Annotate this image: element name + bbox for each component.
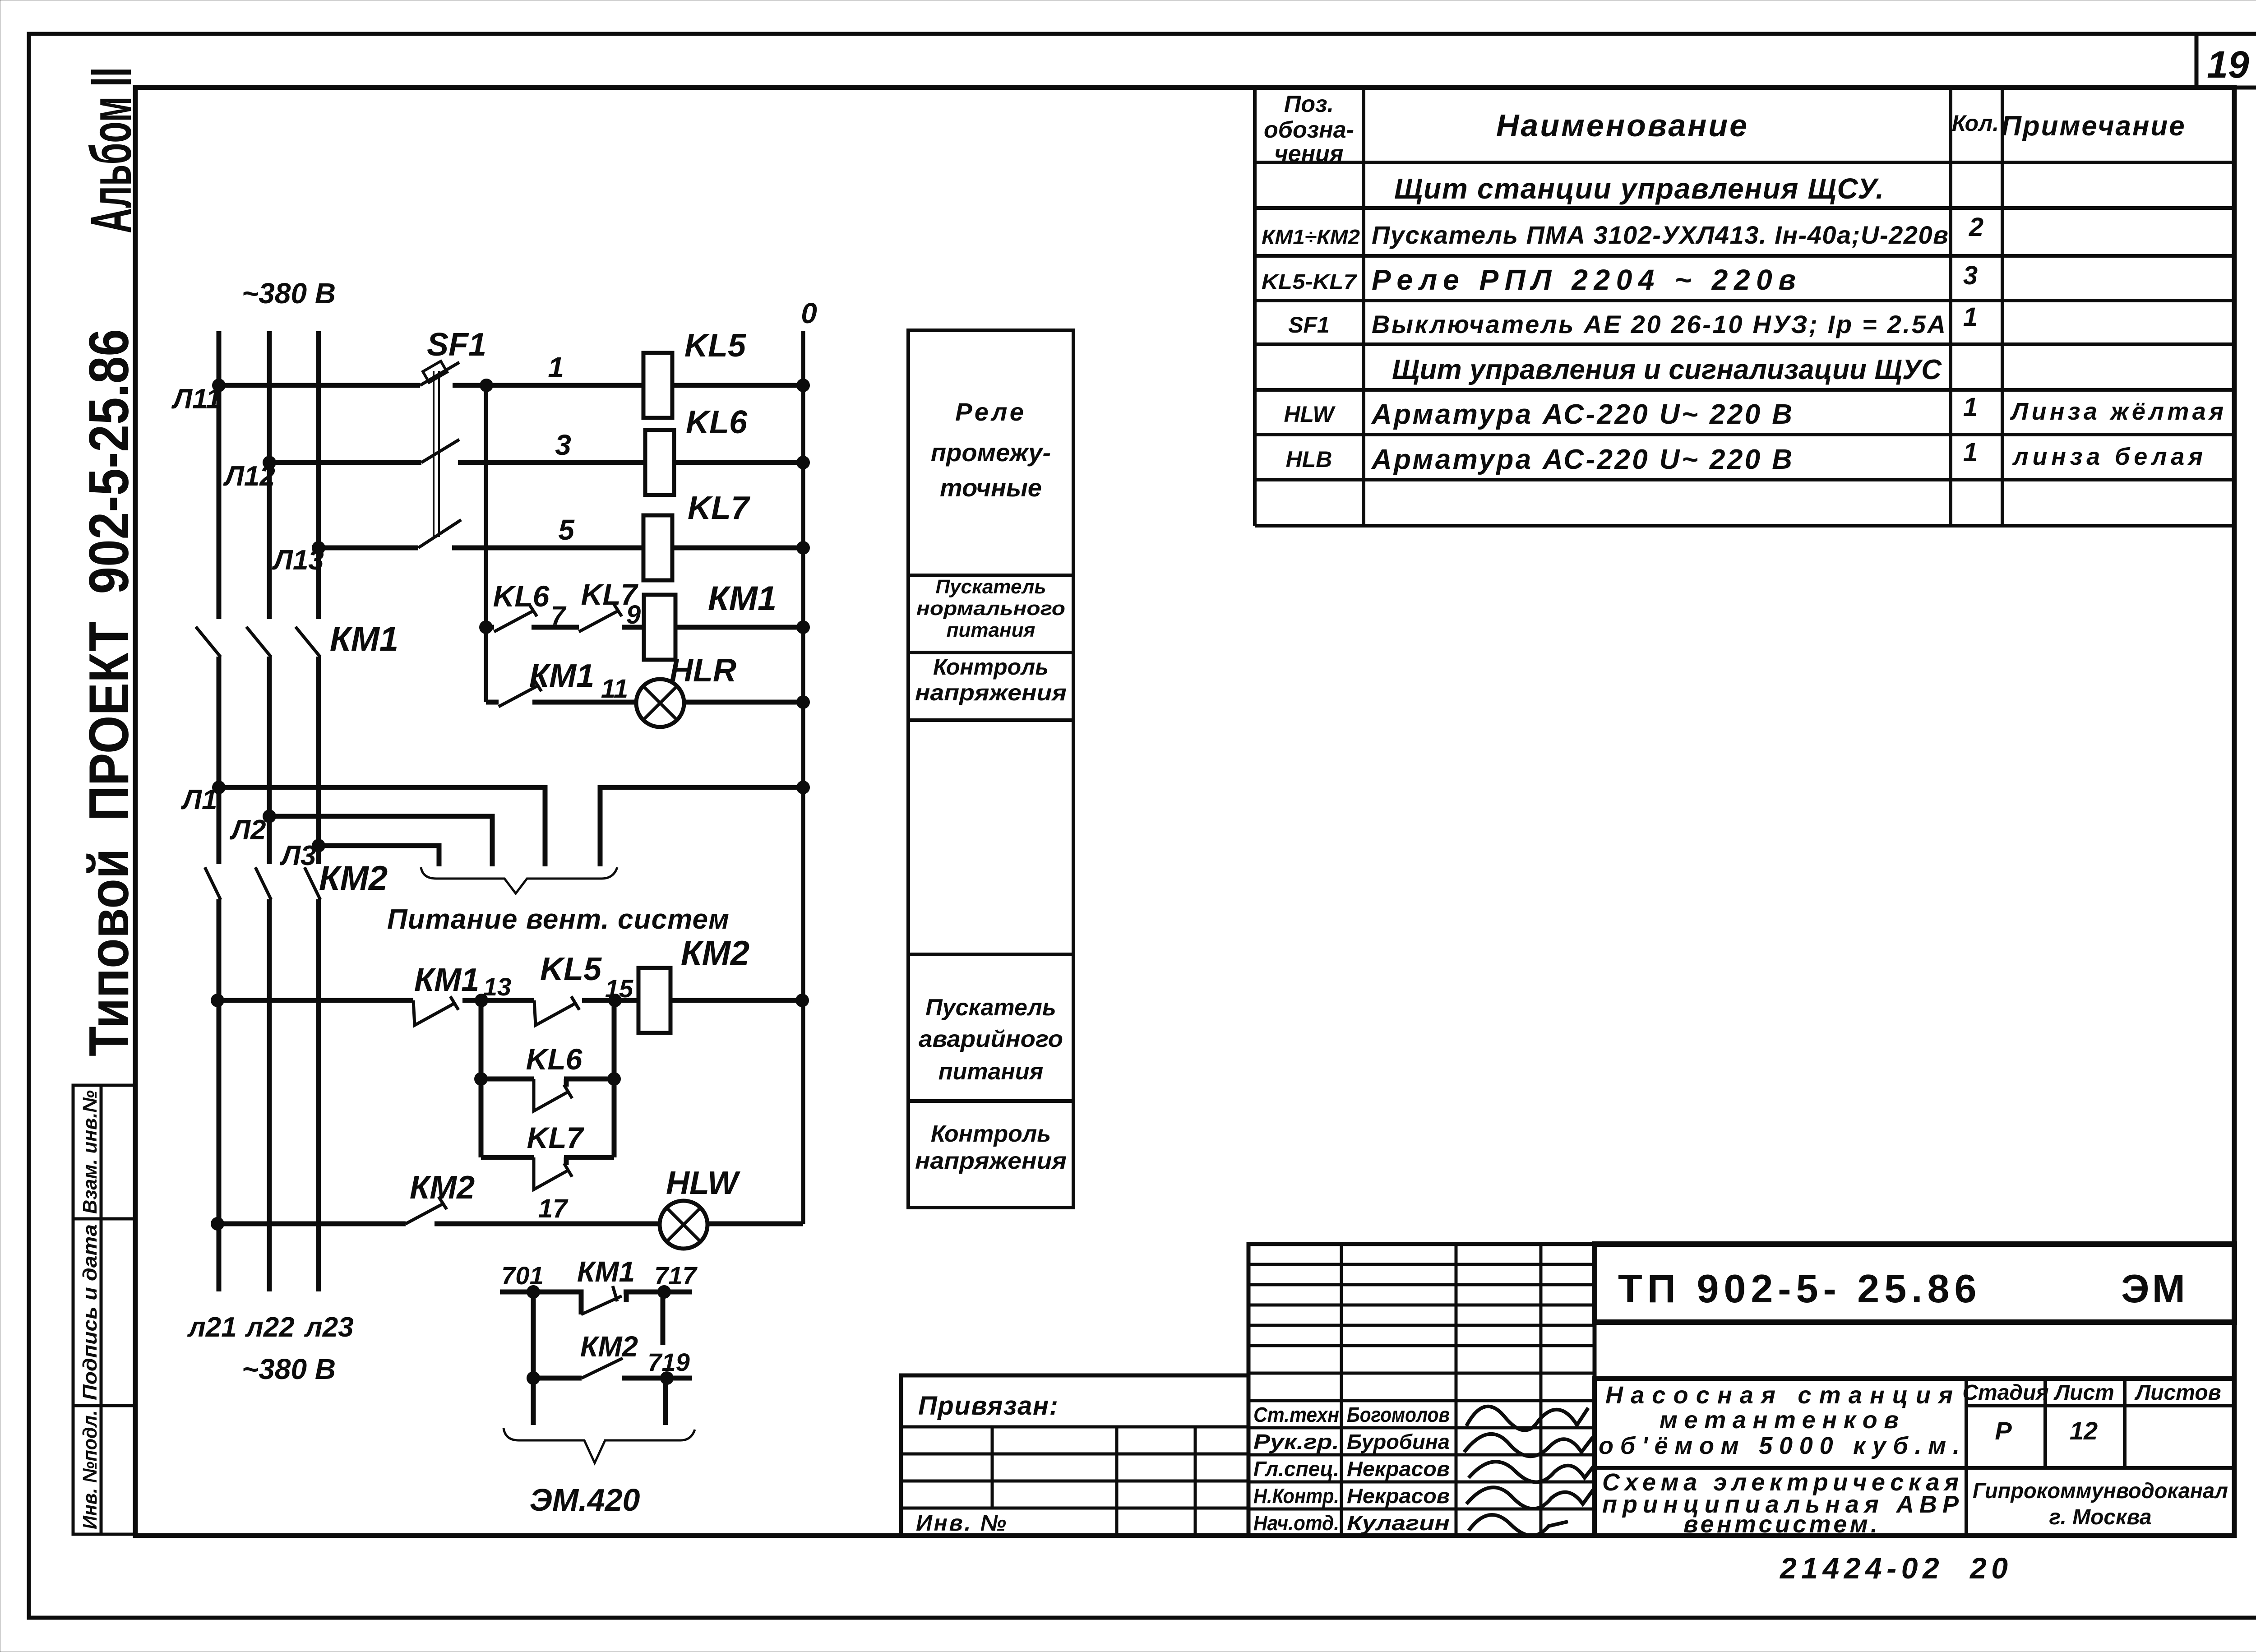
svg-text:13: 13 [483,972,511,1001]
svg-text:КМ2: КМ2 [410,1170,475,1206]
svg-text:Некрасов: Некрасов [1347,1457,1450,1481]
node Л2 [263,810,276,823]
title block signature column grid [1248,1244,1595,1536]
signal lamp HLR [636,679,684,727]
node wire3 right rail [796,456,810,469]
parallel branch verticals [481,1000,614,1157]
svg-text:л23: л23 [304,1312,354,1343]
svg-text:KL6: KL6 [493,579,550,613]
svg-text:KL7: KL7 [527,1121,585,1154]
contactor KM2 main contacts [205,867,320,900]
brace vent systems feed [421,867,617,893]
svg-text:Рук.гр.: Рук.гр. [1253,1430,1339,1453]
svg-text:3: 3 [555,429,571,461]
big designation box ТП 902-5-25.86 / ЭМ [1595,1244,2234,1322]
svg-text:KL7: KL7 [688,490,750,526]
svg-text:3: 3 [1963,261,1978,290]
contactor coil KM1 [644,595,675,660]
svg-text:11: 11 [601,674,628,703]
wire Л12 [269,460,421,465]
svg-text:Питание вент. систем: Питание вент. систем [387,904,729,935]
svg-text:Н.Контр.: Н.Контр. [1253,1484,1339,1508]
node Л1 [212,781,226,794]
annotation column box [908,330,1073,1208]
svg-text:1: 1 [1963,393,1978,422]
node KM2branch right rail [795,994,809,1007]
signature scribbles [1466,1407,1588,1430]
svg-text:Альбом II: Альбом II [79,67,143,233]
svg-text:Пускатель: Пускатель [936,576,1046,598]
svg-text:Щит станции управления ЩСУ.: Щит станции управления ЩСУ. [1394,172,1884,205]
node KL6branch left [474,1072,488,1086]
signal lamp HLW [660,1201,707,1249]
svg-text:HLW: HLW [666,1165,741,1201]
node wire1 left rail [480,379,493,392]
svg-text:Примечание: Примечание [2001,111,2186,142]
svg-text:Буробина: Буробина [1347,1430,1450,1453]
svg-text:метантенков: метантенков [1660,1407,1899,1434]
svg-text:Кол.: Кол. [1952,111,1999,136]
svg-text:Линза жёлтая: Линза жёлтая [2010,398,2224,425]
svg-text:Л1: Л1 [180,784,217,815]
svg-text:питания: питания [947,619,1036,641]
svg-text:KL5-KL7: KL5-KL7 [1262,270,1358,293]
svg-text:12: 12 [2070,1416,2098,1445]
node 0-branch right rail [796,781,810,794]
wire 0-branch vent feed [600,787,803,866]
Стадия Лист Листов columns [2043,1379,2047,1468]
svg-text:1: 1 [1963,302,1978,332]
svg-text:точные: точные [940,473,1042,502]
svg-text:ЭМ.420: ЭМ.420 [530,1482,640,1518]
node branch7 right rail [796,620,810,634]
svg-text:об'ёмом 5000 куб.м.: об'ёмом 5000 куб.м. [1599,1432,1960,1459]
svg-text:9: 9 [626,600,641,629]
svg-text:напряжения: напряжения [915,1148,1067,1174]
svg-text:л21: л21 [187,1312,237,1343]
svg-text:1: 1 [548,351,564,384]
svg-text:0: 0 [801,297,817,329]
wire 5 [452,546,803,551]
svg-text:Арматура АС-220 U~ 220 В: Арматура АС-220 U~ 220 В [1371,399,1792,430]
contact KL6 NO [494,604,537,632]
svg-text:нормального: нормального [916,597,1065,620]
title area box [1595,1379,2234,1536]
svg-text:Типовой ПРОЕКТ 902-5-25.86: Типовой ПРОЕКТ 902-5-25.86 [78,329,140,1056]
svg-text:чения: чения [1274,141,1343,167]
wire Л2 [269,816,492,866]
svg-text:напряжения: напряжения [915,680,1067,705]
contactor KM1 main contacts [196,627,320,657]
svg-text:Листов: Листов [2134,1381,2221,1405]
svg-text:Наименование: Наименование [1496,108,1749,143]
svg-text:1: 1 [1963,438,1978,467]
contact KM2 aux NO [582,1358,623,1378]
svg-text:~380 В: ~380 В [242,1353,336,1385]
circuit breaker SF1 [418,362,461,548]
node 717 [657,1285,671,1299]
svg-text:аварийного: аварийного [919,1026,1063,1052]
stub below 717 [661,1292,666,1345]
svg-text:Нач.отд.: Нач.отд. [1253,1511,1339,1535]
svg-text:Гл.спец.: Гл.спец. [1253,1457,1339,1481]
node Л3 [312,839,325,852]
svg-text:719: 719 [647,1348,689,1376]
svg-text:Р: Р [1995,1416,2012,1445]
svg-text:КМ1: КМ1 [577,1255,635,1288]
relay coil KL7 [643,515,672,580]
svg-text:Реле: Реле [955,398,1026,426]
svg-text:SF1: SF1 [1288,312,1330,338]
svg-text:~380 В: ~380 В [242,277,336,310]
wire Л13 [319,546,418,551]
svg-text:15: 15 [605,974,633,1003]
svg-text:КМ1÷КМ2: КМ1÷КМ2 [1262,225,1360,249]
svg-text:Гипрокоммунводоканал: Гипрокоммунводоканал [1973,1479,2228,1503]
node wire1 right rail [796,379,810,392]
HLR branch wire 11 [486,700,803,705]
svg-text:21424-02 20: 21424-02 20 [1779,1551,2008,1585]
svg-text:HLB: HLB [1286,447,1332,472]
contact KL7 NO [579,604,622,632]
KM1 coil branch wires 7-9 [486,625,803,630]
bus line Л21 [217,331,222,1291]
svg-text:КМ1: КМ1 [330,620,398,658]
svg-text:Пускатель ПМА 3102-УХЛ413. Iн: Пускатель ПМА 3102-УХЛ413. Iн-40а;U-220в [1372,221,1948,249]
svg-text:2: 2 [1969,213,1983,242]
svg-text:КМ2: КМ2 [580,1330,638,1363]
wire Л11 [219,383,420,388]
contact KL6 parallel branch [481,1079,614,1087]
node KL6branch right [607,1072,621,1086]
node HLWbranch bus1 [211,1217,224,1231]
svg-text:Л13: Л13 [272,545,324,576]
vertical below 719 [663,1378,668,1425]
svg-text:717: 717 [654,1261,698,1290]
svg-text:701: 701 [501,1261,543,1290]
svg-text:7: 7 [551,601,567,630]
svg-text:КМ2: КМ2 [319,859,388,898]
svg-text:KL5: KL5 [684,328,746,364]
svg-text:HLR: HLR [670,652,736,689]
svg-text:Лист: Лист [2053,1381,2114,1405]
sidebar stamp boxes [73,1085,135,1534]
wire 3 [458,460,803,465]
svg-text:KL6: KL6 [526,1042,583,1076]
svg-text:Инв. №: Инв. № [916,1510,1006,1536]
contactor coil KM2 [638,968,670,1033]
svg-text:КМ1: КМ1 [708,579,777,618]
wire Л3 [319,846,439,866]
svg-text:Привязан:: Привязан: [918,1391,1058,1421]
HLW branch wire 17 [217,1222,803,1226]
svg-text:линза белая: линза белая [2012,443,2203,470]
svg-text:ТП 902-5- 25.86: ТП 902-5- 25.86 [1618,1266,1982,1311]
left rail [484,385,488,702]
node wire5 right rail [796,541,810,555]
svg-text:Ст.техн: Ст.техн [1253,1403,1339,1426]
svg-text:Л2: Л2 [229,814,266,846]
svg-text:17: 17 [538,1194,569,1223]
aux circuit top wire 701-717 [500,1292,692,1314]
svg-text:HLW: HLW [1284,402,1336,427]
svg-text:Стадия: Стадия [1962,1381,2048,1405]
node branch7 left rail [479,620,493,634]
wire Л1 [219,787,545,866]
svg-text:Арматура АС-220 U~ 220 В: Арматура АС-220 U~ 220 В [1371,444,1792,475]
svg-text:Контроль: Контроль [933,654,1049,680]
svg-text:Поз.: Поз. [1284,91,1334,117]
node 13 [475,994,488,1007]
contact KM1 NC [413,996,458,1025]
node 15 [608,994,622,1007]
relay coil KL5 [643,353,672,418]
svg-text:Л11: Л11 [171,384,222,415]
bus line Л22 [267,331,272,1291]
svg-text:Л12: Л12 [223,461,275,492]
contact KM2 aux NO [406,1197,447,1224]
svg-text:Взам. инв.№: Взам. инв.№ [79,1090,101,1214]
node HLR right rail [796,695,810,709]
bus line Л23 [316,331,321,1291]
svg-text:KL6: KL6 [686,404,748,440]
contact KM1 aux NC [581,1286,622,1314]
svg-text:г. Москва: г. Москва [2049,1505,2151,1529]
contact KL7 parallel branch [481,1157,614,1165]
svg-text:5: 5 [558,514,575,546]
vertical below 701 [531,1292,536,1425]
aux circuit KM2 wire 719 [533,1376,692,1381]
svg-text:ЭМ: ЭМ [2121,1266,2188,1311]
svg-text:Инв. №подл.: Инв. №подл. [79,1410,101,1529]
svg-text:КМ1: КМ1 [529,658,594,694]
node below 701 [527,1371,540,1385]
node Л12 [263,456,276,469]
KM2 coil branch wire 13-15 [217,998,801,1003]
svg-text:л22: л22 [245,1312,295,1343]
svg-text:KL5: KL5 [540,951,602,987]
node 719 [660,1371,674,1385]
svg-text:Кулагин: Кулагин [1347,1511,1450,1535]
contact KM1 aux NO [499,679,541,707]
svg-text:питания: питания [938,1059,1043,1085]
svg-text:обозна-: обозна- [1264,117,1354,143]
svg-text:Контроль: Контроль [931,1121,1051,1147]
svg-text:Богомолов: Богомолов [1347,1403,1450,1426]
svg-text:Л3: Л3 [279,840,316,871]
svg-text:КМ2: КМ2 [681,934,749,972]
brace ЭМ.420 [504,1428,695,1463]
svg-text:Некрасов: Некрасов [1347,1484,1450,1508]
svg-text:SF1: SF1 [427,327,486,363]
node KM2branch bus1 [211,994,224,1007]
node 701 [527,1285,540,1299]
node Л13 [312,541,325,555]
svg-text:Выключатель АЕ 20 26-10 НУЗ;: Выключатель АЕ 20 26-10 НУЗ; Iр = 2.5А [1372,310,1946,338]
right rail 0 [801,331,805,1224]
svg-text:Пускатель: Пускатель [925,995,1056,1021]
svg-text:Подпись и дата: Подпись и дата [79,1224,101,1400]
attachment block Привязан [901,1375,1248,1536]
svg-text:Щит управления и сигнализации: Щит управления и сигнализации ЩУС [1392,354,1942,385]
contact KL5 NC [534,996,579,1025]
page number box [2196,34,2256,88]
wire 1 [453,383,803,388]
components table grid [1253,88,1257,526]
svg-text:Насосная станция: Насосная станция [1605,1382,1953,1409]
svg-text:КМ1: КМ1 [414,962,479,998]
relay coil KL6 [645,430,674,495]
svg-text:промежу-: промежу- [931,438,1051,467]
node Л11 [212,379,226,392]
svg-text:Реле РПЛ 2204 ~ 220в: Реле РПЛ 2204 ~ 220в [1372,264,1796,296]
svg-text:19: 19 [2207,43,2249,86]
